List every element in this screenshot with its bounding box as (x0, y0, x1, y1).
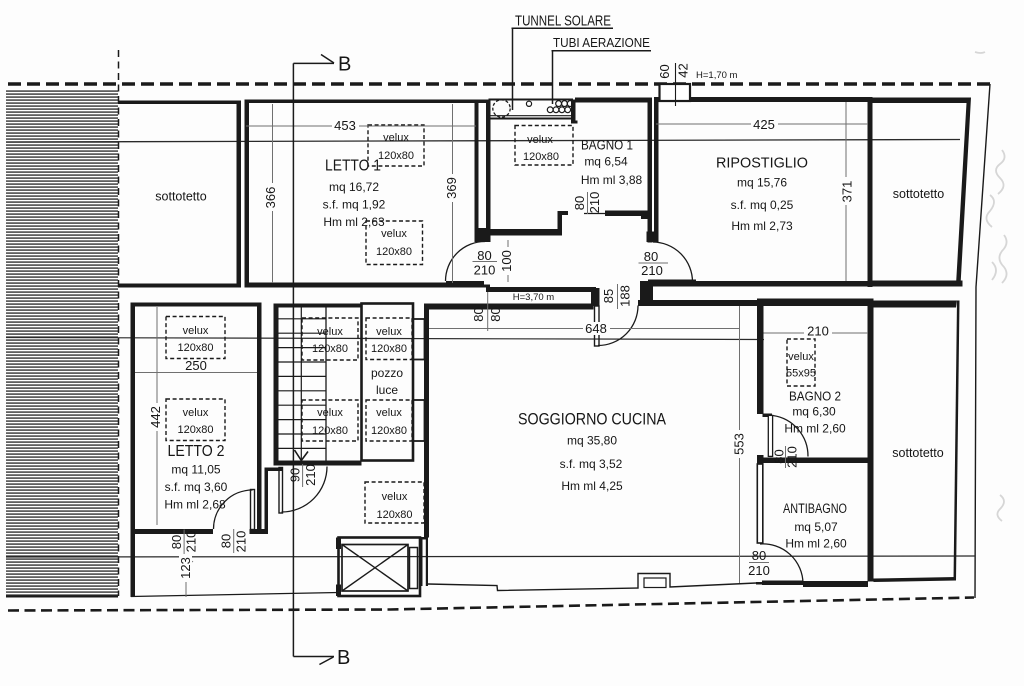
stair walk line with down arrow (300, 308, 302, 460)
letto2 top wall (131, 303, 262, 307)
shaft connector lower (413, 400, 425, 441)
svg-text:120x80: 120x80 (371, 343, 407, 355)
velux labels (177, 132, 816, 521)
svg-text:s.f. mq 0,25: s.f. mq 0,25 (731, 198, 794, 212)
svg-text:mq 6,30: mq 6,30 (792, 405, 836, 419)
letto1 door leaf 80/210 (446, 281, 484, 285)
vertical dashed property line (118, 50, 120, 596)
svg-text:123: 123 (178, 557, 193, 579)
bagno1 top wall (575, 98, 651, 103)
svg-text:Hm ml 2,68: Hm ml 2,68 (164, 498, 226, 512)
rotated dim texts (148, 63, 855, 579)
svg-text:H=3,70 m: H=3,70 m (513, 292, 555, 303)
svg-text:453: 453 (334, 118, 356, 133)
sottotetto top-right walls (873, 98, 972, 286)
svg-text:B: B (337, 647, 350, 669)
soggiorno left wall (424, 304, 429, 538)
svg-text:60: 60 (657, 64, 672, 78)
letto1 right wall (double with bagno1) (475, 100, 479, 243)
svg-text:BAGNO 1: BAGNO 1 (581, 137, 633, 153)
svg-text:mq 5,07: mq 5,07 (794, 520, 838, 534)
ripostiglio top wall (654, 97, 870, 102)
hatch bottom edge (6, 596, 118, 598)
elevator outer box (339, 538, 421, 597)
svg-text:210: 210 (785, 446, 800, 468)
svg-text:210: 210 (474, 263, 496, 278)
svg-text:210: 210 (641, 263, 663, 278)
bagno2/antibagno separator wall (764, 458, 869, 464)
elevator counterweight (410, 548, 418, 589)
tubi aerazione small circles (526, 101, 531, 106)
letto2 door leaf (251, 490, 255, 530)
section marker B top (293, 62, 334, 64)
long roof pitch line middle (6, 338, 764, 340)
svg-text:velux: velux (183, 407, 209, 419)
long roof pitch line upper (6, 140, 960, 143)
svg-text:648: 648 (585, 321, 607, 336)
svg-text:120x80: 120x80 (376, 246, 412, 258)
top boundary dashed line (8, 82, 990, 85)
svg-text:velux: velux (376, 326, 402, 338)
letto2 left wall (131, 303, 136, 598)
svg-text:luce: luce (376, 383, 398, 397)
understairs door leaf (279, 468, 283, 514)
corridor bottom wall under letto1 door (446, 285, 490, 288)
svg-text:velux: velux (317, 326, 343, 338)
ripostiglio bottom wall (644, 281, 868, 287)
wall stub between ripostiglio and soggiorno door (640, 281, 653, 306)
soggiorno top wall left (427, 304, 594, 310)
svg-text:B: B (338, 54, 351, 76)
niche wall bar below letto2 (265, 468, 269, 535)
svg-text:mq 15,76: mq 15,76 (737, 176, 787, 190)
svg-text:RIPOSTIGLIO: RIPOSTIGLIO (716, 155, 808, 172)
letto1 bottom wall left part (245, 283, 447, 288)
svg-text:mq 11,05: mq 11,05 (171, 463, 220, 477)
faint pencil marks right margin (975, 52, 1007, 521)
svg-text:42: 42 (676, 63, 691, 77)
svg-text:sottotetto: sottotetto (892, 446, 943, 460)
svg-text:ANTIBAGNO: ANTIBAGNO (783, 501, 847, 516)
svg-text:120x80: 120x80 (177, 342, 213, 354)
svg-text:80: 80 (572, 196, 587, 210)
bagno1 right wall (648, 98, 653, 243)
stairs top wall (274, 304, 362, 308)
svg-text:sottotetto: sottotetto (893, 187, 944, 201)
svg-text:80: 80 (488, 307, 503, 321)
sottotetto bottom-right walls (868, 299, 874, 582)
svg-text:LETTO 1: LETTO 1 (325, 158, 381, 175)
svg-text:442: 442 (148, 406, 163, 428)
section marker B bottom (293, 656, 334, 658)
bagno2 antibagno left wall (757, 299, 764, 415)
svg-text:mq 35,80: mq 35,80 (567, 434, 617, 448)
svg-text:s.f. mq 3,52: s.f. mq 3,52 (560, 457, 623, 471)
svg-text:210: 210 (807, 324, 829, 339)
understairs door arc (282, 467, 328, 513)
svg-text:120x80: 120x80 (378, 150, 414, 162)
horizontal dim texts with white backing (185, 117, 832, 578)
sottotetto left room walls (118, 101, 241, 288)
soggiorno door 85/188 leaf (595, 306, 600, 346)
section line B-B (292, 63, 294, 656)
svg-text:85: 85 (601, 289, 616, 303)
long roof pitch line lower (6, 556, 975, 557)
bagno2 door arc (773, 416, 808, 457)
svg-text:velux: velux (381, 228, 407, 240)
svg-text:80: 80 (169, 535, 184, 549)
stairs left wall (274, 304, 279, 466)
svg-text:120x80: 120x80 (371, 425, 407, 437)
roof hatch area (6, 89, 118, 597)
svg-text:80: 80 (471, 307, 486, 321)
svg-text:120x80: 120x80 (312, 425, 348, 437)
svg-text:210: 210 (184, 531, 199, 553)
svg-text:425: 425 (753, 117, 775, 132)
letto1 top wall (245, 100, 491, 104)
svg-text:80: 80 (752, 548, 766, 563)
svg-text:553: 553 (732, 433, 747, 455)
bagno2 door hinge bar (763, 414, 773, 418)
tunnel solare circle (493, 100, 510, 117)
svg-text:velux: velux (527, 134, 553, 146)
stairs stringer line (325, 308, 327, 461)
svg-text:210: 210 (303, 464, 318, 486)
svg-text:TUBI AERAZIONE: TUBI AERAZIONE (553, 35, 650, 50)
soggiorno top wall right (638, 300, 760, 306)
pozzo luce shaft (362, 304, 414, 461)
bagno2 top wall (757, 299, 868, 307)
dimension lines gray (135, 102, 868, 597)
soggiorno door 85/188 arc (598, 306, 638, 346)
antibagno door leaf (762, 581, 803, 586)
antibagno door arc (760, 544, 803, 584)
svg-text:210: 210 (748, 563, 770, 578)
svg-text:Hm ml 4,25: Hm ml 4,25 (561, 479, 623, 493)
svg-text:mq 16,72: mq 16,72 (329, 180, 379, 194)
svg-text:SOGGIORNO CUCINA: SOGGIORNO CUCINA (518, 410, 667, 429)
bagno1 sliding door leaf (605, 211, 646, 217)
bagno2 door leaf (768, 415, 772, 456)
svg-text:BAGNO 2: BAGNO 2 (789, 389, 841, 404)
terrace bottom thin line (131, 593, 339, 597)
svg-text:100: 100 (499, 250, 514, 272)
elevator cabin with X (342, 545, 408, 592)
ripostiglio door leaf (648, 280, 696, 287)
elevator left tabs (336, 538, 341, 550)
svg-text:velux: velux (317, 407, 343, 419)
ripostiglio left wall (654, 98, 659, 238)
letto2 bottom wall (131, 529, 214, 534)
svg-text:mq 6,54: mq 6,54 (584, 155, 628, 169)
letto1 door arc (446, 242, 486, 282)
counter box with sink (tunnel solare) (490, 100, 573, 119)
svg-text:s.f. mq 1,92: s.f. mq 1,92 (323, 198, 386, 212)
soggiorno left wall lower channel (421, 537, 429, 586)
svg-text:80: 80 (644, 249, 658, 264)
svg-text:LETTO 2: LETTO 2 (168, 443, 225, 460)
svg-text:s.f. mq 3,60: s.f. mq 3,60 (165, 480, 228, 494)
svg-text:120x80: 120x80 (376, 509, 412, 521)
svg-text:H=1,70 m: H=1,70 m (696, 70, 738, 81)
soggiorno bottom edge line with window bump (428, 574, 756, 591)
svg-text:120x80: 120x80 (523, 151, 559, 163)
antibagno bottom wall (803, 581, 868, 587)
svg-text:velux: velux (183, 325, 209, 337)
svg-text:369: 369 (444, 177, 459, 199)
svg-text:90: 90 (288, 468, 303, 482)
ripostiglio door arc (653, 242, 693, 282)
svg-text:371: 371 (840, 181, 855, 203)
svg-text:pozzo: pozzo (371, 366, 403, 380)
window inner rect (644, 578, 666, 588)
svg-text:velux: velux (788, 351, 814, 363)
bagno1 bottom wall left (486, 229, 560, 236)
stair treads (279, 319, 327, 449)
svg-text:TUNNEL SOLARE: TUNNEL SOLARE (515, 14, 611, 30)
ripostiglio door hinge notch (647, 232, 659, 243)
svg-text:188: 188 (618, 285, 633, 307)
svg-text:velux: velux (383, 132, 409, 144)
svg-text:Hm ml 2,63: Hm ml 2,63 (323, 215, 385, 229)
right boundary line (975, 84, 990, 598)
velux boxes dashed (166, 125, 815, 523)
svg-text:55x95: 55x95 (786, 368, 816, 380)
svg-text:120x80: 120x80 (177, 424, 213, 436)
svg-text:velux: velux (382, 491, 408, 503)
chimney box 60x42 (660, 84, 691, 101)
corner wall at soggiorno door 85/188 (591, 288, 600, 306)
svg-text:210: 210 (234, 531, 249, 553)
svg-text:210: 210 (587, 192, 602, 214)
svg-text:Hm ml 2,73: Hm ml 2,73 (731, 219, 793, 233)
svg-text:velux: velux (376, 407, 402, 419)
room label letto1 (155, 137, 944, 551)
svg-text:sottotetto: sottotetto (155, 190, 206, 204)
shaft connector upper (413, 319, 425, 360)
bagno1 bottom step (558, 211, 569, 236)
svg-text:Hm ml 2,60: Hm ml 2,60 (784, 422, 846, 436)
letto2 right wall (257, 303, 262, 535)
svg-text:Hm ml 3,88: Hm ml 3,88 (581, 173, 643, 187)
letto1 left wall (245, 100, 250, 288)
ripostiglio right wall (868, 97, 873, 287)
svg-text:80: 80 (219, 534, 234, 548)
svg-text:120x80: 120x80 (312, 343, 348, 355)
letto2 door arc (214, 490, 253, 529)
svg-text:250: 250 (185, 358, 207, 373)
counter right step wall (571, 100, 578, 124)
svg-text:80: 80 (477, 248, 491, 263)
stairs bottom wall (274, 461, 362, 466)
svg-text:Hm ml 2,60: Hm ml 2,60 (785, 537, 847, 551)
bottom boundary dashed line (8, 598, 974, 611)
svg-text:366: 366 (263, 187, 278, 209)
corridor bottom wall right part (486, 287, 596, 292)
bagno1 bottom right corner bit (641, 211, 652, 220)
